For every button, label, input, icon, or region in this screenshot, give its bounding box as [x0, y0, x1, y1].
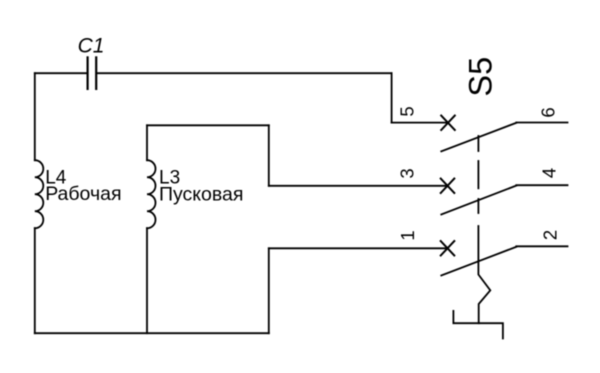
contact cross terminal 3 [441, 179, 455, 193]
svg-text:6: 6 [538, 107, 559, 117]
wire terminal 4 [516, 184, 567, 186]
wire L3 branch lower [146, 228, 148, 333]
svg-text:Рабочая: Рабочая [45, 183, 121, 205]
svg-text:1: 1 [397, 230, 418, 240]
wire to terminal 3 [269, 185, 448, 187]
wire vertical drop to contact 3 line [268, 125, 270, 186]
inductor L4 [35, 160, 44, 228]
svg-text:Пусковая: Пусковая [159, 184, 243, 206]
wire to terminal 5 [392, 122, 448, 124]
wire L3 branch top stub [146, 125, 148, 160]
svg-text:C1: C1 [78, 35, 105, 58]
wire terminal 2 [516, 245, 567, 247]
wire left rail upper [34, 73, 36, 160]
wire left rail lower [34, 228, 36, 333]
wire to terminal 1 [269, 247, 448, 249]
svg-text:4: 4 [539, 168, 560, 178]
wire terminal 6 [516, 122, 567, 124]
wire vertical riser from bottom rail [268, 248, 270, 333]
contact cross terminal 5 [441, 116, 455, 130]
svg-text:5: 5 [397, 106, 418, 116]
wire top rail right segment [98, 72, 392, 74]
inductor L3 [147, 160, 156, 228]
svg-text:3: 3 [397, 168, 418, 178]
switch handle bracket [453, 311, 503, 339]
wire bottom rail [35, 332, 269, 334]
wire top rail left segment [35, 72, 87, 74]
capacitor C1 [88, 56, 97, 90]
contact cross terminal 1 [441, 241, 455, 255]
wire right vertical from top rail [391, 73, 393, 122]
switch actuator zigzag [478, 226, 490, 323]
switch blade pole 5-6 [441, 123, 516, 152]
switch blade pole 1-2 [441, 247, 516, 276]
switch blade pole 3-4 [441, 186, 516, 215]
svg-text:S5: S5 [463, 57, 499, 97]
svg-text:2: 2 [540, 230, 561, 240]
switch linkage dashed line [477, 136, 479, 213]
wire L3 top horizontal [147, 124, 269, 126]
